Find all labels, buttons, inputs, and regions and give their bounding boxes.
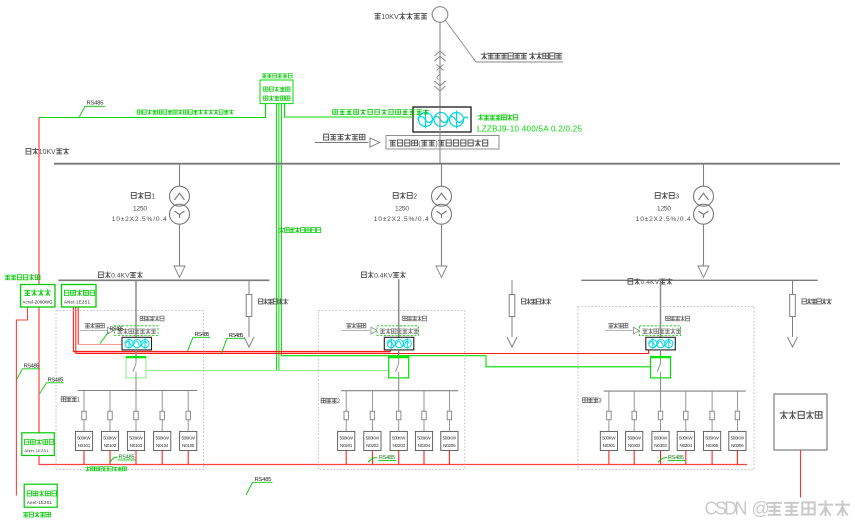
- svg-text:RS485: RS485: [87, 101, 104, 107]
- wire: inverter feeder N0302: [633, 391, 635, 411]
- svg-text:1250: 1250: [133, 206, 147, 213]
- wire: load feeder #1: [248, 280, 250, 294]
- svg-text:N0104: N0104: [156, 443, 169, 448]
- wire: T3 secondary drop: [703, 224, 705, 266]
- svg-text:N0203: N0203: [392, 443, 405, 448]
- wire: fuse to inverter N0205: [448, 420, 450, 432]
- fuse N0305: [710, 411, 714, 420]
- box: 数据采集器 #2 (mid left): [22, 433, 55, 456]
- svg-text:N0201: N0201: [340, 443, 353, 448]
- fuse N0306: [735, 411, 739, 420]
- inverter box N0204 500KW: [415, 431, 432, 450]
- switch symbol #1: [133, 358, 136, 378]
- switch box Q3 (green): [651, 357, 671, 378]
- svg-text:10KV: 10KV: [39, 149, 56, 156]
- label: 原有电流互感器: [478, 115, 518, 121]
- box: grid-tie cabinet enclosure #2 (dashed): [318, 311, 465, 470]
- transformer T1: [170, 186, 190, 224]
- label: 用户内部负荷 #2: [521, 299, 551, 304]
- svg-text:500KW: 500KW: [366, 436, 380, 441]
- wire: T2 primary drop: [441, 164, 443, 186]
- fuse N0205: [447, 411, 451, 420]
- svg-text:500KW: 500KW: [627, 436, 641, 441]
- svg-text:500KW: 500KW: [731, 436, 745, 441]
- wire: inverter N0305 to control bus (red): [711, 451, 713, 465]
- svg-text:ANet-1E2S1: ANet-1E2S1: [25, 448, 50, 453]
- wire: breaker control to sections 2/3: [281, 356, 650, 367]
- svg-text:CSDN: CSDN: [705, 499, 748, 519]
- node: 10KV incoming terminal: [432, 7, 448, 23]
- label: 控制断路器分合闸: [279, 227, 321, 232]
- wire: fuse to inverter N0104: [161, 420, 163, 432]
- wire: switch to dist bus #2: [398, 378, 400, 391]
- fuse N0303: [658, 411, 662, 420]
- wire: T2 secondary drop: [441, 224, 443, 266]
- label: RS485 inverter loop #1: [110, 457, 117, 462]
- svg-text:0.4KV: 0.4KV: [111, 273, 130, 280]
- label: 反孤岛装置: [23, 512, 50, 517]
- wire: inverter feeder N0203: [398, 391, 400, 412]
- fuse N0302: [632, 411, 636, 420]
- label: 用户0.4KV母线 #2: [362, 272, 406, 280]
- inverter box N0304 500KW: [677, 431, 694, 450]
- svg-text:0.4KV: 0.4KV: [641, 279, 660, 286]
- wire: inverter feeder N0105: [187, 391, 189, 412]
- label: 安装在二控机: [5, 275, 40, 280]
- box: anti-islanding device 防孤岛装置: [260, 80, 293, 104]
- transformer T2: [432, 186, 452, 224]
- disconnector marks on feeder: [435, 51, 446, 91]
- wire: breaker control bundle (3 green verticals): [276, 104, 281, 371]
- bus: inverter distribution #2: [341, 390, 458, 392]
- wire: inverter N0105 to control bus (red): [187, 451, 189, 465]
- svg-text:10±2X2.5%/0.4: 10±2X2.5%/0.4: [636, 216, 691, 223]
- wire: red stub to meter3: [648, 350, 650, 353]
- svg-text:500KW: 500KW: [129, 436, 143, 441]
- wire: red stub to meter2: [389, 349, 391, 352]
- svg-text:500KW: 500KW: [705, 436, 719, 441]
- wire: fuse to inverter N0304: [685, 420, 687, 432]
- svg-text:N0202: N0202: [366, 443, 379, 448]
- wire: CT signal line from box to CT: [285, 104, 414, 117]
- inverter box N0301 500KW: [600, 431, 617, 450]
- svg-text:500KW: 500KW: [155, 436, 169, 441]
- svg-text:2: 2: [413, 193, 417, 200]
- wire: inverter feeder N0305: [711, 391, 713, 411]
- wire: inverter feeder N0306: [736, 391, 738, 411]
- label: 用户0.4KV母线 #3: [628, 278, 672, 286]
- wire: inverter N0302 to control bus (red): [633, 451, 635, 465]
- label: 变压器3 ratings: [655, 192, 679, 200]
- svg-text:10±2X2.5%/0.4: 10±2X2.5%/0.4: [112, 216, 167, 223]
- label: RS485 inverter loop #2: [368, 458, 377, 463]
- label: 并网计量柜 #1: [140, 316, 164, 321]
- box: 数据采集器 #3 (bottom left): [24, 484, 57, 507]
- wire: fuse to inverter N0105: [187, 420, 189, 432]
- svg-text:3: 3: [598, 399, 602, 405]
- label: 并网点1: [61, 397, 81, 404]
- svg-text:N0304: N0304: [680, 443, 693, 448]
- switch box Q2 (green): [389, 357, 409, 378]
- transformer T3: [694, 186, 714, 224]
- wire: fuse to inverter N0101: [83, 420, 85, 432]
- fuse N0301: [607, 411, 611, 420]
- wire: inverter N0201 to control bus (red): [345, 451, 347, 465]
- wire: fuse to inverter N0203: [398, 420, 400, 432]
- svg-text:500KW: 500KW: [339, 436, 353, 441]
- svg-text:1: 1: [77, 398, 81, 404]
- fuse N0101: [82, 411, 86, 420]
- wire: inverter feeder N0304: [685, 391, 687, 411]
- box: PV metering point #1 (green dashed) 光伏并网计量点: [115, 326, 159, 336]
- wire: LV drop to meter #2: [398, 279, 400, 337]
- svg-text:ANet-1E2S1: ANet-1E2S1: [64, 300, 91, 305]
- box: grid-tie cabinet enclosure #3 (dashed): [578, 307, 754, 470]
- svg-text:N0204: N0204: [418, 443, 431, 448]
- inverter box N0202 500KW: [364, 431, 381, 450]
- label: 计量装置 #1 with arrow: [85, 323, 104, 328]
- svg-text:500KW: 500KW: [103, 436, 117, 441]
- wire: inverter feeder N0202: [371, 391, 373, 412]
- wire: inverter feeder N0102: [109, 391, 111, 412]
- wire: inverter N0205 to control bus (red): [448, 451, 450, 465]
- label: 用户0.4KV母线 #1: [99, 272, 143, 280]
- inverter box N0104 500KW: [154, 431, 171, 450]
- bus: inverter distribution #1: [78, 390, 198, 392]
- fuse N0304: [684, 411, 688, 420]
- wire: T1 primary drop: [179, 164, 181, 186]
- label: 用户10KV母线: [26, 148, 69, 156]
- wire: inverter feeder N0303: [660, 391, 662, 411]
- inverter box N0203 500KW: [390, 431, 407, 450]
- inverter box N0102 500KW: [101, 431, 118, 450]
- svg-text:1: 1: [151, 193, 155, 200]
- wire: monitor red link (left): [16, 307, 27, 496]
- svg-text:N0105: N0105: [182, 443, 195, 448]
- svg-text:500KW: 500KW: [654, 436, 668, 441]
- switch box Q1 (green): [126, 357, 146, 378]
- fuse N0203: [397, 411, 401, 420]
- svg-text:500KW: 500KW: [77, 436, 91, 441]
- inverter box N0303 500KW: [652, 431, 669, 450]
- svg-text:1250: 1250: [657, 206, 671, 213]
- box: 数据采集器 ANet-1E2S1: [62, 285, 97, 308]
- wire: fuse to inverter N0103: [135, 420, 137, 432]
- wire: pale green link switch1-switch2: [146, 370, 389, 372]
- bus: 用户10KV母线: [54, 163, 840, 165]
- wire: LV drop to meter #1: [135, 280, 137, 337]
- meter CT symbols #1: [125, 338, 149, 348]
- svg-text:N0205: N0205: [443, 443, 456, 448]
- fuse N0204: [422, 411, 426, 420]
- wire: RS485 red trunk upper: [73, 351, 390, 353]
- svg-text:Anet-1E2S1: Anet-1E2S1: [27, 500, 53, 505]
- wire: below fuse #2: [511, 317, 513, 338]
- svg-text:10±2X2.5%/0.4: 10±2X2.5%/0.4: [374, 216, 429, 223]
- meter box #1: [122, 337, 152, 350]
- wire: inverter N0104 to control bus (red): [161, 451, 163, 465]
- meter CT symbols #2: [387, 338, 411, 348]
- meter box #2: [384, 337, 414, 350]
- bus: inverter distribution #3: [604, 390, 746, 392]
- wire: fuse to inverter N0306: [736, 420, 738, 432]
- svg-text:): ): [435, 139, 437, 148]
- svg-text:500KW: 500KW: [392, 436, 406, 441]
- svg-text:N0102: N0102: [104, 443, 117, 448]
- wire: fuse to inverter N0102: [109, 420, 111, 432]
- wire: inverter N0301 to control bus (red): [608, 451, 610, 465]
- label: 用户内部负荷 #3: [802, 299, 832, 304]
- fuse N0201: [344, 411, 348, 420]
- bus: 用户0.4KV母线 #1: [58, 279, 269, 281]
- label: 并网点2: [321, 398, 341, 405]
- inverter box N0306 500KW: [729, 431, 746, 450]
- box: grid-tie cabinet enclosure #1 (dashed): [56, 311, 204, 470]
- svg-text:LZZBJ9-10 400/5A 0.2/0.25: LZZBJ9-10 400/5A 0.2/0.25: [477, 125, 583, 134]
- box: 环境检测仪: [774, 394, 827, 450]
- label: 从电流互感器二端子取电流信号: [333, 109, 429, 114]
- svg-text:500KW: 500KW: [181, 436, 195, 441]
- svg-text:N0303: N0303: [654, 443, 667, 448]
- wire: fuse to inverter N0204: [423, 420, 425, 432]
- wire: inverter feeder N0201: [345, 391, 347, 412]
- svg-text:N0103: N0103: [130, 443, 143, 448]
- svg-text:10KV: 10KV: [381, 12, 399, 21]
- label: 计量装置 #3 with arrow: [609, 323, 628, 328]
- wire: RS485 red trunk lower: [76, 353, 649, 355]
- svg-text:N0306: N0306: [731, 443, 744, 448]
- wire: fuse to inverter N0302: [633, 420, 635, 432]
- wire: inverter N0304 to control bus (red): [685, 451, 687, 465]
- label: 并网点3: [583, 398, 603, 405]
- inverter box N0305 500KW: [704, 431, 721, 450]
- label: 供电方用电方 产权分界点 demarcation: [446, 21, 477, 63]
- label: 并网计量柜 #3: [666, 316, 690, 321]
- wire: inverter feeder N0103: [135, 391, 137, 412]
- inverter box N0105 500KW: [180, 431, 197, 450]
- svg-text:N0301: N0301: [603, 443, 616, 448]
- arrow: load #2: [507, 337, 517, 347]
- meter CT symbols #3: [649, 338, 673, 348]
- svg-text:Acrel-2000WG: Acrel-2000WG: [23, 300, 54, 305]
- wire: T3 primary drop: [703, 164, 705, 186]
- svg-text:RS485: RS485: [110, 327, 124, 333]
- label: RS485 inverter loop #3: [658, 458, 667, 463]
- fuse N0105: [186, 411, 190, 420]
- box: PV metering point #2 (green dashed) 光伏并网计量点: [377, 326, 419, 336]
- fuse N0102: [108, 411, 112, 420]
- wire: meter to switch #1: [135, 350, 137, 357]
- wire: fuse to inverter N0201: [345, 420, 347, 432]
- fuse F3: [790, 295, 796, 317]
- wire: T1 secondary drop: [179, 224, 181, 266]
- fuse F1: [246, 295, 252, 317]
- bus: 用户0.4KV母线 #3: [581, 279, 817, 281]
- inverter box N0101 500KW: [75, 431, 92, 450]
- svg-text:N0305: N0305: [706, 443, 719, 448]
- wire: inverter N0102 to control bus (red): [109, 451, 111, 465]
- label: 双向计量装置 with arrow: [324, 134, 365, 140]
- arrow: T1 feed to LV bus: [174, 266, 185, 278]
- inverter box N0201 500KW: [338, 431, 355, 450]
- CT metering box U0: [413, 107, 471, 132]
- wire: below fuse #3: [792, 317, 794, 338]
- switch symbol #3: [657, 358, 660, 378]
- arrow: T2 feed to LV bus: [436, 266, 447, 278]
- wire: inverter N0103 to control bus (red): [135, 451, 137, 465]
- label: 变压器2 ratings: [393, 192, 417, 200]
- box: PV metering point #3 (green dashed) 光伏并网计量点: [640, 326, 681, 336]
- wire: env monitor link (red): [800, 450, 802, 498]
- svg-text:500KW: 500KW: [679, 436, 693, 441]
- arrow: load #1: [244, 337, 254, 347]
- wire: inverter N0101 to control bus (red): [83, 451, 85, 465]
- label: incoming feeder 由10KV系统引来: [375, 12, 427, 21]
- wire: switch to dist bus #1: [135, 378, 137, 391]
- wire: inverter N0202 to control bus (red): [371, 451, 373, 465]
- wire: inverter feeder N0104: [161, 391, 163, 412]
- wire: trip signal line to anti-islanding box: [39, 104, 266, 118]
- label: 安装在配电室: [262, 74, 292, 78]
- wire: fuse to inverter N0303: [660, 420, 662, 432]
- switch symbol #2: [396, 358, 399, 378]
- label: 防孤岛装置预留串口分闸遥控系统指令信号: [137, 110, 234, 115]
- wire: meter to switch #3: [660, 350, 662, 357]
- box: 燕京啤酒(吉安)有限公司高压室: [386, 136, 499, 150]
- wire: inverter N0204 to control bus (red): [423, 451, 425, 465]
- wire: main RS485 red riser + bottom bus: [39, 118, 747, 465]
- inverter box N0103 500KW: [127, 431, 144, 450]
- arrow: load #3: [788, 337, 798, 347]
- wire: inverter feeder N0101: [83, 391, 85, 412]
- svg-text:2: 2: [337, 399, 341, 405]
- box: 监控系统 Acrel-2000WG: [21, 285, 56, 308]
- label: 变压器1 ratings: [131, 192, 155, 200]
- wire: feeder through CT box to 10KV bus: [439, 107, 441, 164]
- wire: meter to switch #2: [398, 350, 400, 357]
- wire: fuse to inverter N0305: [711, 420, 713, 432]
- svg-text:@: @: [752, 499, 770, 519]
- wire: inverter N0303 to control bus (red): [660, 451, 662, 465]
- wire: LV drop to meter #3: [660, 280, 662, 337]
- wire: load feeder #3: [792, 280, 794, 294]
- wire: incoming 10KV feeder drop: [439, 22, 441, 107]
- arrow: T3 feed to LV bus: [698, 266, 709, 278]
- wire: red drops from data-collector: [73, 307, 78, 354]
- wire: inverter N0203 to control bus (red): [398, 451, 400, 465]
- wire: RS485 red line to meter1: [78, 343, 122, 345]
- fuse N0104: [160, 411, 164, 420]
- CT symbols (3 current transformers): [418, 111, 469, 129]
- svg-text:N0302: N0302: [628, 443, 641, 448]
- fuse F2: [509, 295, 515, 317]
- inverter box N0205 500KW: [441, 431, 458, 450]
- inverter box N0302 500KW: [626, 431, 643, 450]
- svg-text:500KW: 500KW: [602, 436, 616, 441]
- label: 控制逆变器隔离装置: [85, 467, 126, 471]
- wire: switch to dist bus #3: [660, 378, 662, 391]
- fuse N0103: [134, 411, 138, 420]
- wire: load feeder #2: [511, 280, 513, 294]
- label: 计量装置 #2 with arrow: [347, 323, 366, 328]
- svg-text:500KW: 500KW: [443, 436, 457, 441]
- label: 并网计量柜 #2: [403, 316, 427, 321]
- wire: fuse to inverter N0301: [608, 420, 610, 432]
- wire: inverter feeder N0204: [423, 391, 425, 412]
- svg-text:500KW: 500KW: [417, 436, 431, 441]
- fuse N0202: [370, 411, 374, 420]
- svg-text:0.4KV: 0.4KV: [374, 273, 393, 280]
- svg-text:N0101: N0101: [78, 443, 91, 448]
- wire: fuse to inverter N0202: [371, 420, 373, 432]
- label: 用户内部负荷 #1: [258, 299, 288, 304]
- meter box #3: [646, 337, 676, 350]
- svg-text:3: 3: [675, 193, 679, 200]
- wire: below fuse #1: [248, 317, 250, 338]
- wire: inverter N0306 to control bus (red): [736, 451, 738, 465]
- svg-text:1250: 1250: [395, 206, 409, 213]
- wire: inverter feeder N0301: [608, 391, 610, 411]
- wire: inverter feeder N0205: [448, 391, 450, 412]
